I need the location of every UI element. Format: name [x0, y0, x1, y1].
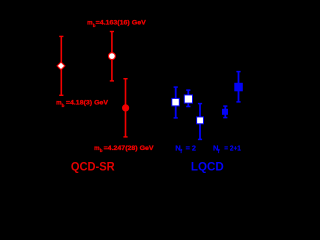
error bar: QCD-SR filled circle point — [123, 79, 127, 137]
marker: large filled blue square — [234, 83, 243, 92]
error bar: LQCD open square 1 — [174, 87, 178, 118]
error bar: LQCD open square 2 — [186, 90, 190, 107]
error bar: LQCD small filled square — [223, 106, 227, 118]
label: N_f = 2 — [175, 143, 196, 155]
svg-text:b: b — [100, 148, 103, 153]
marker: open blue square 3 — [197, 117, 204, 124]
error bar: QCD-SR diamond point — [59, 36, 63, 95]
marker: small filled blue square — [222, 109, 228, 115]
error bar: QCD-SR open circle point — [110, 31, 114, 81]
svg-text:=4.18(3) GeV: =4.18(3) GeV — [66, 100, 109, 107]
svg-text:= 2+1: = 2+1 — [224, 143, 241, 152]
marker: open red diamond (m_b=4.18(3)) — [57, 62, 65, 70]
svg-text:=4.163(16) GeV: =4.163(16) GeV — [96, 20, 147, 27]
marker: open red circle (m_b=4.163(16)) — [108, 53, 115, 60]
label: N_f = 2+1 — [213, 143, 242, 155]
label: m_b=4.163(16) GeV — [87, 20, 147, 28]
svg-text:QCD-SR: QCD-SR — [71, 160, 115, 174]
svg-text:f: f — [218, 149, 220, 155]
svg-text:f: f — [180, 149, 182, 155]
error bar: LQCD open square 3 — [198, 104, 202, 140]
svg-text:LQCD: LQCD — [191, 160, 224, 174]
svg-text:b: b — [62, 103, 65, 108]
error bar: LQCD large filled square — [236, 72, 240, 103]
label: LQCD — [191, 160, 224, 174]
marker: open blue square 2 — [184, 95, 192, 103]
label: QCD-SR — [71, 160, 115, 174]
marker: filled red circle (m_b=4.247(28)) — [122, 104, 129, 111]
label: m_b=4.18(3) GeV — [56, 100, 109, 109]
marker: open blue square 1 — [172, 98, 180, 106]
label: m_b=4.247(28) GeV — [94, 145, 154, 153]
svg-text:=4.247(28) GeV: =4.247(28) GeV — [104, 145, 155, 152]
svg-text:= 2: = 2 — [186, 143, 196, 152]
